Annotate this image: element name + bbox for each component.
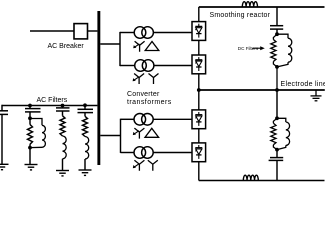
svg-text:AC Filters: AC Filters [37,97,68,104]
svg-text:Converter: Converter [127,91,160,98]
svg-text:Electrode line: Electrode line [281,81,325,88]
svg-text:AC Breaker: AC Breaker [48,43,85,50]
svg-text:Smoothing reactor: Smoothing reactor [210,12,271,19]
svg-text:transformers: transformers [127,99,172,106]
